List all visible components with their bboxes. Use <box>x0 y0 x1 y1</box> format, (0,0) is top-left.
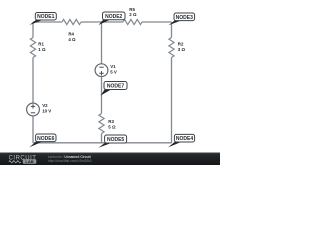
svg-text:R4: R4 <box>68 31 74 36</box>
svg-text:NODE4: NODE4 <box>176 136 193 142</box>
wire right branch bottom (R2 to NODE4 corner) <box>171 58 173 143</box>
node NODE3 flag <box>169 13 195 25</box>
voltage source V2 <box>27 103 40 116</box>
svg-text:3 Ω: 3 Ω <box>178 47 186 52</box>
svg-text:LAB: LAB <box>25 159 33 164</box>
wire top rail left segment (NODE1 to R4) <box>33 21 62 23</box>
wire top rail right segment (R5 to NODE3) <box>142 21 172 23</box>
svg-text:http://circuitlab.com/c/5m28k3: http://circuitlab.com/c/5m28k3 <box>48 159 92 163</box>
svg-text:NODE6: NODE6 <box>37 136 54 142</box>
svg-text:5 Ω: 5 Ω <box>108 124 116 129</box>
svg-text:NODE3: NODE3 <box>176 15 193 21</box>
value label R4 4Ω <box>68 31 76 41</box>
svg-text:R1: R1 <box>38 42 44 47</box>
resistor R5 <box>123 19 142 24</box>
footer logo zigzag <box>9 161 21 163</box>
svg-text:V1: V1 <box>110 64 116 69</box>
node NODE1 flag <box>30 13 57 26</box>
node NODE4 flag <box>168 134 195 147</box>
wire left branch top (NODE1 down to R1) <box>32 22 34 38</box>
wire middle branch (V1 to R3) <box>101 77 103 114</box>
resistor R3 <box>99 114 104 134</box>
wire right branch top (NODE3 down to R2) <box>171 22 173 38</box>
resistor R1 <box>30 38 35 58</box>
value label R5 2Ω <box>129 7 137 17</box>
svg-text:NODE1: NODE1 <box>37 14 54 20</box>
wire middle branch bottom (R3 to NODE5 junction) <box>101 134 103 143</box>
node NODE6 flag <box>30 134 57 147</box>
wire left branch middle (R1 to V2) <box>32 58 34 104</box>
wire bottom rail (NODE6 to NODE4) <box>33 142 172 144</box>
svg-text:4 Ω: 4 Ω <box>68 37 76 42</box>
svg-text:10 V: 10 V <box>42 109 51 114</box>
footer bar <box>0 153 220 166</box>
value label R3 5Ω <box>108 119 116 129</box>
node NODE5 flag <box>99 135 127 148</box>
svg-text:NODE2: NODE2 <box>105 14 122 20</box>
svg-text:2 Ω: 2 Ω <box>129 12 137 17</box>
svg-text:1 Ω: 1 Ω <box>38 47 46 52</box>
footer logo LAB box <box>23 159 37 164</box>
node NODE2 flag <box>99 12 126 25</box>
svg-text:NODE5: NODE5 <box>107 137 124 143</box>
svg-text:V2: V2 <box>42 103 48 108</box>
value label V1 5V <box>110 64 117 74</box>
svg-text:R2: R2 <box>178 42 184 47</box>
svg-text:NODE7: NODE7 <box>107 84 124 90</box>
value label R1 1Ω <box>38 42 46 52</box>
node NODE7 flag <box>101 82 128 96</box>
wire top rail middle segment (R4 to R5) <box>81 21 123 23</box>
svg-text:R3: R3 <box>108 119 114 124</box>
resistor R2 <box>169 38 174 58</box>
svg-text:5 V: 5 V <box>110 70 117 75</box>
resistor R4 <box>62 19 81 24</box>
value label V2 10V <box>42 103 51 113</box>
wire left branch bottom (V2 to NODE6 corner) <box>32 116 34 143</box>
value label R2 3Ω <box>178 42 186 52</box>
wire middle branch top (NODE2 down to V1) <box>101 22 103 64</box>
voltage source V1 <box>95 64 108 77</box>
